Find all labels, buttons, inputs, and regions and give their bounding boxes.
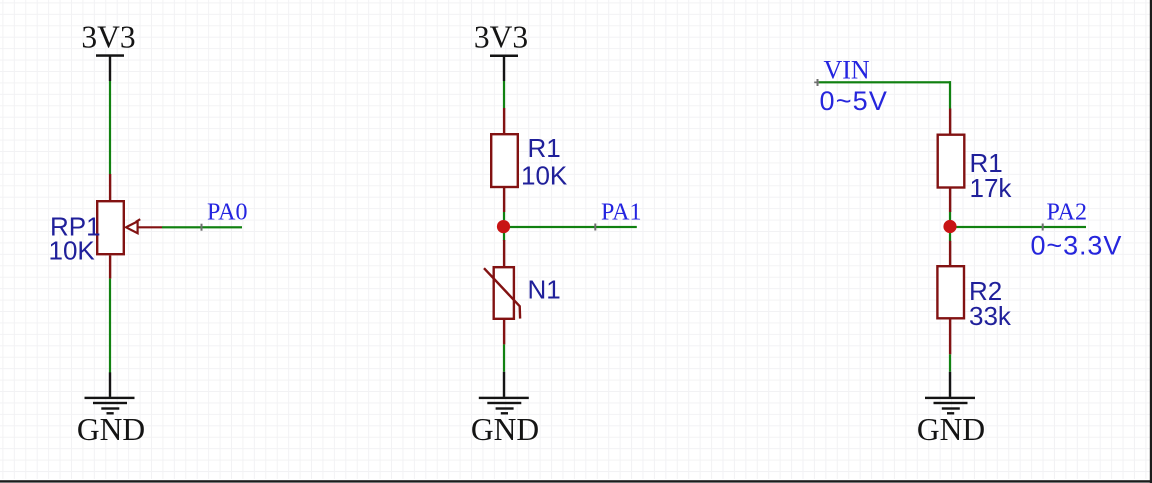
resistor R1 body (491, 134, 518, 187)
svg-text:PA0: PA0 (207, 200, 247, 226)
wire joint tick (VIN start) (814, 82, 819, 84)
thermistor N1 bottom pin (503, 319, 505, 345)
svg-text:PA2: PA2 (1047, 200, 1087, 226)
svg-text:PA1: PA1 (601, 200, 641, 226)
potentiometer RP1 top pin (109, 174, 111, 201)
ground symbol (circuit 2) (479, 372, 529, 415)
thermistor N1 top pin (503, 240, 505, 266)
wire wiper to PA0 (162, 226, 242, 228)
wire node to PA2 (950, 226, 1086, 228)
power port 3V3 bar (490, 55, 518, 58)
wire node to PA1 (504, 226, 637, 228)
power port 3V3 pin (109, 56, 111, 82)
resistor R1 top pin (949, 109, 951, 135)
svg-text:10K: 10K (49, 236, 96, 266)
potentiometer RP1 bottom pin (109, 256, 111, 279)
resistor R1 bottom pin (949, 188, 951, 213)
svg-text:GND: GND (77, 412, 145, 447)
resistor R1 top pin (503, 108, 505, 134)
resistor R2 bottom pin (949, 318, 951, 354)
wire 3V3 to R1 (503, 81, 505, 108)
svg-text:0~3.3V: 0~3.3V (1031, 231, 1123, 261)
wire R1 to node (503, 212, 505, 220)
thermistor N1 strike line (484, 268, 520, 318)
svg-text:N1: N1 (528, 275, 561, 305)
wire 3V3 to RP1 (109, 81, 111, 174)
resistor R2 top pin (949, 241, 951, 266)
svg-text:VIN: VIN (824, 56, 870, 85)
resistor R2 body (937, 266, 964, 318)
ground symbol (circuit 1) (85, 372, 135, 414)
svg-text:0~5V: 0~5V (820, 86, 889, 116)
ground symbol (circuit 3) (925, 372, 975, 415)
junction dot (node PA2) (943, 220, 956, 233)
wire joint tick (1042, 224, 1044, 231)
svg-text:10K: 10K (521, 161, 568, 191)
svg-text:17k: 17k (970, 173, 1013, 203)
svg-text:3V3: 3V3 (474, 20, 528, 55)
resistor R1 body (938, 135, 965, 188)
wire VIN corner down (949, 81, 951, 108)
thermistor N1 body (494, 267, 514, 319)
svg-text:R1: R1 (528, 133, 561, 163)
wire N1 to GND (503, 344, 505, 371)
svg-text:3V3: 3V3 (81, 20, 135, 55)
wire node to R2 (949, 233, 951, 241)
svg-text:GND: GND (917, 412, 985, 447)
potentiometer RP1 body (97, 201, 124, 254)
wire R1 to node (949, 212, 951, 220)
junction dot (node PA1) (497, 220, 510, 233)
wire joint tick (594, 224, 596, 231)
wire node to N1 (503, 233, 505, 241)
svg-text:GND: GND (471, 412, 539, 447)
window border right (1150, 0, 1152, 483)
wire joint tick (201, 224, 203, 231)
wire RP1 to GND (109, 279, 111, 373)
svg-text:33k: 33k (969, 301, 1012, 331)
power port 3V3 pin (503, 56, 505, 81)
potentiometer RP1 wiper arrow (126, 219, 162, 233)
resistor R1 bottom pin (503, 187, 505, 212)
wire VIN horizontal (818, 81, 952, 83)
power port 3V3 bar (96, 54, 124, 57)
wire R2 to GND (949, 354, 951, 372)
window border bottom (0, 480, 1152, 482)
